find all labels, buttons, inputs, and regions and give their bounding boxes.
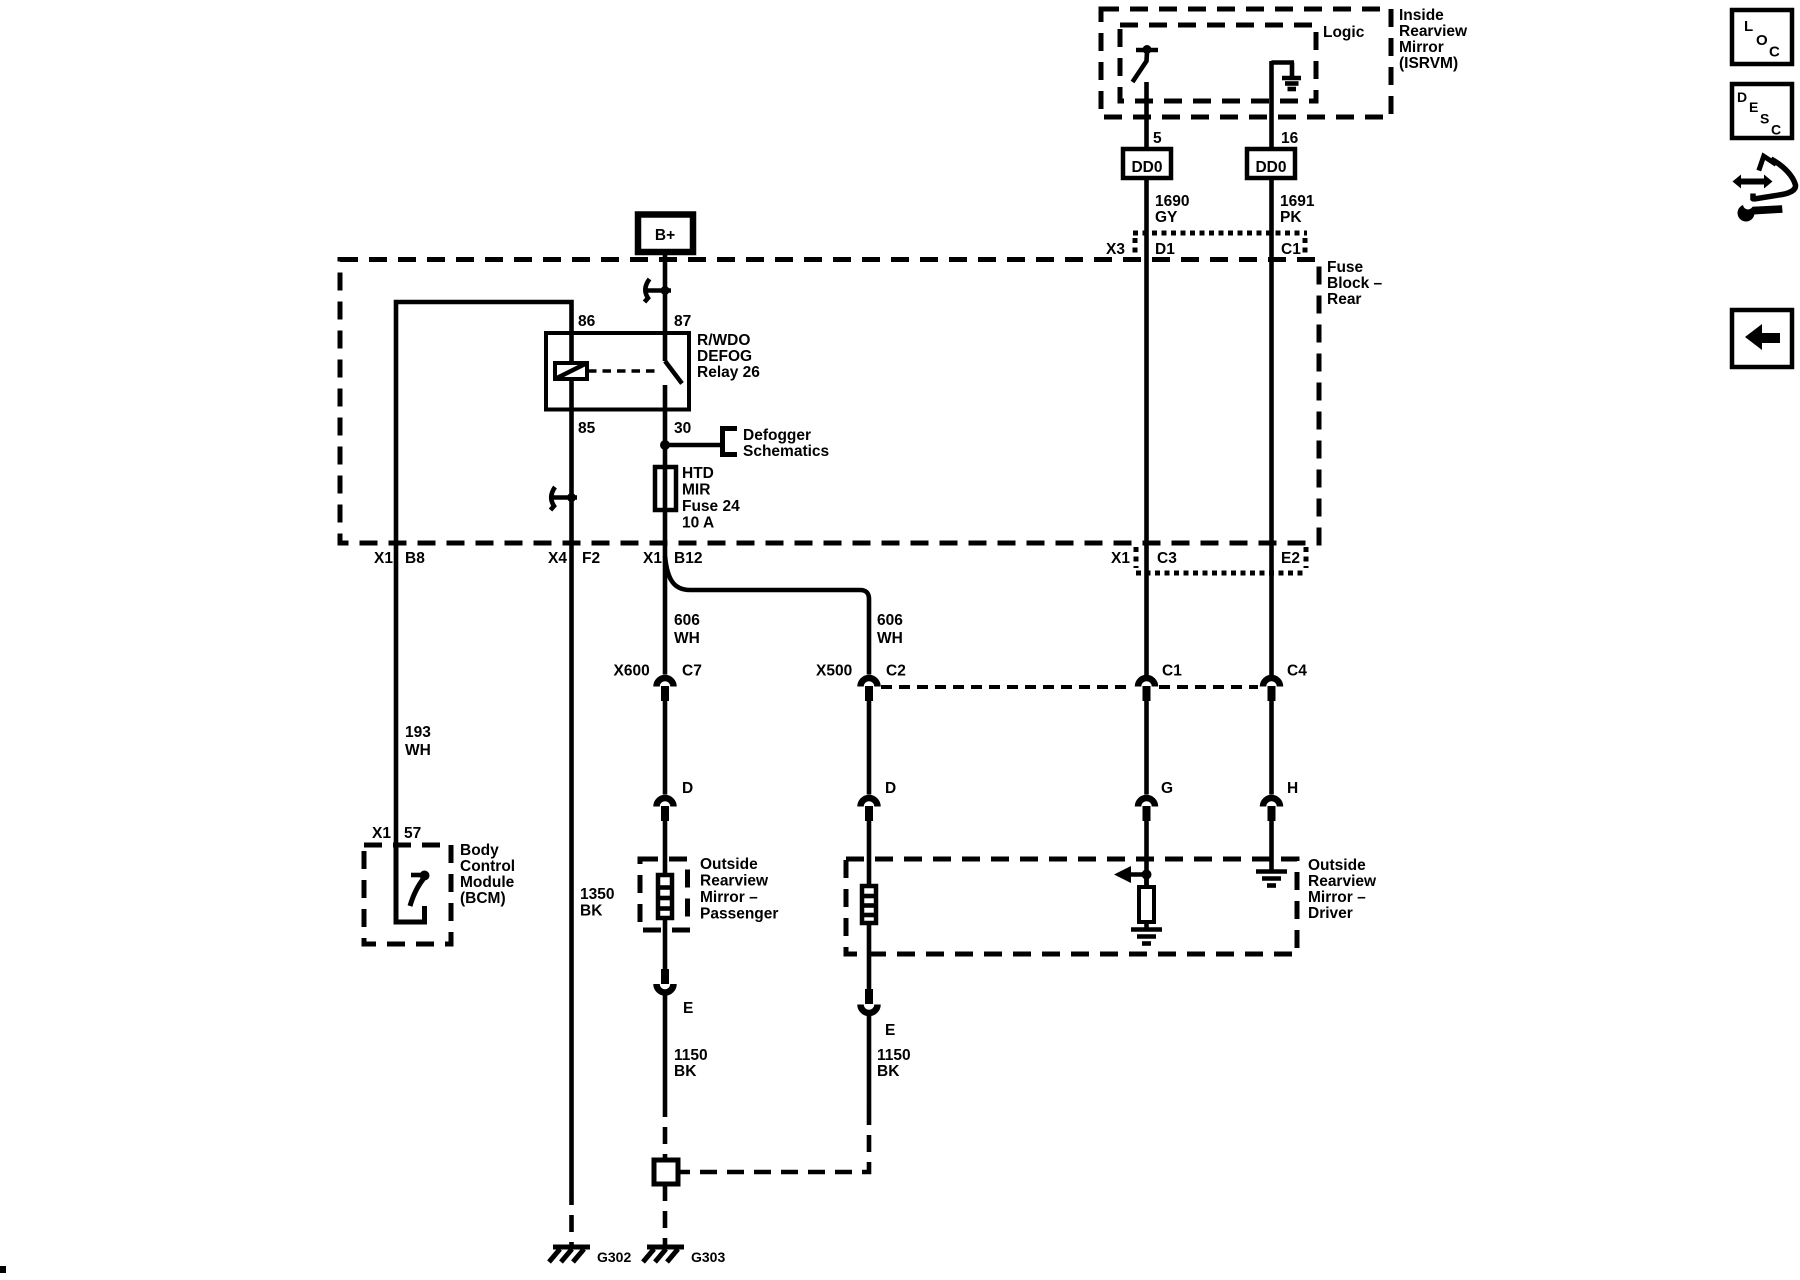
svg-text:Body: Body [460,842,499,859]
fuse HTD MIR Fuse 24 [655,467,676,510]
connector D (passenger) [657,780,694,821]
wire C4 to H [1269,701,1274,795]
fuse block rear box [340,260,1319,544]
svg-text:Block –: Block – [1327,275,1383,292]
wire 606 WH from B12 (main) [663,543,668,675]
svg-text:10 A: 10 A [682,515,714,532]
svg-text:E2: E2 [1281,550,1300,567]
dashed wire driver E to splice [678,1108,869,1172]
ground G302 [549,1247,631,1265]
dashed wire splice to G303 [663,1184,668,1247]
wire relay 30 down through fuse [663,385,668,543]
logic box [1120,25,1316,101]
svg-text:1150: 1150 [877,1047,911,1064]
switch S1 (ISRVM logic) [1133,45,1159,82]
passenger mirror box [640,859,688,930]
svg-text:WH: WH [877,630,903,647]
svg-text:D1: D1 [1155,241,1175,258]
svg-text:B+: B+ [655,227,675,244]
svg-text:Control: Control [460,858,515,875]
X500 harness dashed link C2-C1-C4 [881,685,1133,689]
svg-text:HTD: HTD [682,465,714,482]
svg-text:D: D [1737,89,1747,105]
svg-text:193: 193 [405,724,431,741]
svg-text:C: C [1769,44,1780,61]
connector X1/C3/E2 (fuse block bottom) [1111,547,1306,573]
wire pin5 (logic to DD0) [1144,82,1149,149]
connector E (driver) [861,989,896,1039]
wire heater to E (driver) [867,923,872,989]
driver mirror box [846,859,1297,954]
svg-text:D: D [885,780,896,797]
svg-text:WH: WH [674,630,700,647]
svg-text:G302: G302 [597,1249,631,1265]
svg-text:H: H [1287,780,1298,797]
ground G303 [643,1247,725,1265]
wire C1 to G [1144,701,1149,795]
svg-text:X600: X600 [614,663,650,680]
svg-text:R/WDO: R/WDO [697,332,750,349]
svg-text:Schematics: Schematics [743,443,829,460]
svg-text:C: C [1771,122,1781,138]
wire to defogger schematics [665,443,723,448]
svg-text:Inside: Inside [1399,7,1444,24]
svg-text:L: L [1744,18,1753,35]
relay actuation dashed link [588,369,657,373]
svg-text:C1: C1 [1281,241,1301,258]
svg-text:Mirror –: Mirror – [1308,889,1366,906]
svg-text:Driver: Driver [1308,905,1353,922]
connector DD0 (left) [1123,149,1171,178]
svg-text:C1: C1 [1162,663,1182,680]
svg-text:S: S [1760,111,1769,127]
svg-text:B12: B12 [674,550,702,567]
svg-text:X1: X1 [374,550,393,567]
svg-text:(ISRVM): (ISRVM) [1399,55,1458,72]
BCM box [364,845,451,944]
svg-text:1690: 1690 [1155,193,1189,210]
ground (ISRVM internal) [1272,63,1302,90]
svg-text:X1: X1 [643,550,662,567]
svg-text:Outside: Outside [700,856,758,873]
connector C1 [1138,663,1182,702]
svg-text:5: 5 [1153,130,1162,147]
svg-text:C4: C4 [1287,663,1307,680]
svg-text:E: E [885,1022,895,1039]
svg-text:F2: F2 [582,550,600,567]
driver mirror motor junction [1142,870,1152,880]
driver mirror heater element [862,886,876,923]
svg-text:X1: X1 [1111,550,1130,567]
svg-text:Rearview: Rearview [1308,873,1377,890]
wire resistor to ground [1144,922,1149,929]
svg-text:Module: Module [460,874,515,891]
svg-text:1350: 1350 [580,886,614,903]
connector DD0 (right) [1247,149,1295,178]
wire junction to resistor [1144,875,1149,888]
B+ terminal [638,215,693,253]
svg-text:G: G [1161,780,1173,797]
svg-text:WH: WH [405,742,431,759]
svg-text:Logic: Logic [1323,24,1365,41]
wire BCM to relay 86 [396,302,572,845]
connector X600 C7 [614,663,702,702]
svg-text:E: E [683,1000,693,1017]
dashed wire 85 to G302 [569,1188,574,1247]
svg-text:DD0: DD0 [1131,159,1162,176]
ground (driver mirror resistor) [1131,930,1162,944]
svg-text:C3: C3 [1157,550,1177,567]
svg-text:X500: X500 [816,663,852,680]
svg-text:(BCM): (BCM) [460,890,506,907]
wire C2 to D (606 WH) [867,701,872,795]
connector D (driver) [861,780,897,821]
resistor (driver mirror) [1139,887,1154,922]
svg-text:C7: C7 [682,663,702,680]
svg-text:X3: X3 [1106,241,1125,258]
svg-text:PK: PK [1280,209,1302,226]
wiper arrow [1128,872,1147,877]
svg-text:D: D [682,780,693,797]
svg-text:DEFOG: DEFOG [697,348,752,365]
icon back arrow [1732,310,1792,367]
svg-text:16: 16 [1281,130,1299,147]
relay switch lever [665,361,682,384]
svg-text:E: E [1749,99,1758,115]
wire 1150 BK (passenger) [663,996,668,1101]
wire pin16 (logic to DD0) [1269,61,1274,149]
svg-text:G303: G303 [691,1249,725,1265]
svg-text:Rearview: Rearview [1399,23,1468,40]
wire H into driver mirror [1269,821,1274,872]
connector X500 C2 [816,663,906,702]
svg-text:BK: BK [674,1063,697,1080]
svg-text:Rear: Rear [1327,291,1361,308]
wire G into driver mirror [1144,821,1149,887]
passenger mirror heater element [658,875,672,918]
clip symbol on B+ wire [645,279,672,302]
page corner mark [0,1266,6,1273]
svg-text:Passenger: Passenger [700,906,778,923]
svg-text:Mirror: Mirror [1399,39,1444,56]
connector G [1138,780,1173,821]
svg-text:BK: BK [580,903,603,920]
wire C7 to D (606 WH) [663,701,668,795]
relay R/WDO DEFOG Relay 26 box [546,333,689,410]
svg-text:87: 87 [674,313,691,330]
icon DESC [1732,84,1792,138]
ground (driver mirror H) [1256,872,1287,886]
svg-text:86: 86 [578,313,596,330]
svg-text:Fuse: Fuse [1327,259,1364,276]
svg-text:606: 606 [674,612,700,629]
svg-text:1150: 1150 [674,1047,708,1064]
svg-text:Rearview: Rearview [700,873,769,890]
svg-text:Defogger: Defogger [743,427,811,444]
svg-text:B8: B8 [405,550,425,567]
dashed wire to splice [663,1100,668,1160]
defogger schematics bracket [723,429,738,455]
wire D into passenger mirror [663,821,668,875]
connector X3 (fuse block top) [1106,233,1307,258]
wire 1150 BK (driver) [867,1016,872,1108]
connector H [1263,780,1298,821]
svg-text:C2: C2 [886,663,906,680]
junction node (30 to defogger) [660,440,670,450]
wire branch B12 to X500 [665,556,869,675]
svg-text:Relay 26: Relay 26 [697,364,760,381]
wire D into driver mirror [867,821,872,886]
wire heater to E (passenger) [663,918,668,969]
clip symbol on 85 wire [551,487,578,510]
svg-text:X4: X4 [548,550,567,567]
svg-text:GY: GY [1155,209,1178,226]
svg-text:Outside: Outside [1308,857,1366,874]
svg-text:Fuse 24: Fuse 24 [682,498,740,515]
svg-text:BK: BK [877,1063,900,1080]
wire 1691 PK [1269,178,1274,675]
ISRVM module box [1101,9,1391,117]
wire B+ to relay 87 [663,250,668,361]
connector C4 [1263,663,1307,702]
svg-text:O: O [1756,32,1768,49]
connector E (passenger) [657,969,694,1017]
splice [654,1160,678,1184]
wire relay 85 down [569,379,574,1188]
wire 1690 GY [1144,178,1149,675]
BCM internal driver switch [396,845,430,922]
svg-text:DD0: DD0 [1255,159,1286,176]
svg-text:Mirror –: Mirror – [700,889,758,906]
relay coil [555,363,587,379]
svg-text:30: 30 [674,420,691,437]
svg-text:1691: 1691 [1280,193,1315,210]
icon swap arrows [1733,156,1796,221]
svg-text:MIR: MIR [682,482,710,499]
svg-text:X1: X1 [372,825,391,842]
svg-text:85: 85 [578,420,596,437]
svg-text:606: 606 [877,612,903,629]
icon LOC [1732,10,1792,64]
svg-text:57: 57 [404,825,421,842]
